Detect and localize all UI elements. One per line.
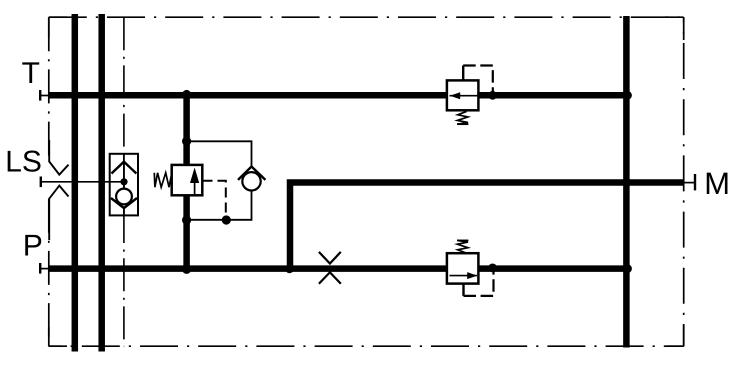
spring of RV2 (457, 240, 468, 253)
node: T / middle branch junction (182, 90, 191, 99)
port P label (25, 235, 41, 256)
wire M line (290, 183, 684, 270)
node: collector / middle branch junction (182, 215, 191, 224)
wire P gallery (49, 265, 629, 272)
relief valve RV1 (on T gallery) (447, 80, 479, 110)
node: RV2 pilot / P junction (488, 264, 497, 273)
wire CV2 to pilot collector (187, 191, 252, 220)
wire T gallery (49, 92, 629, 99)
port M label (707, 173, 728, 194)
port M marker (684, 174, 695, 190)
gallery vertical line 1 (72, 14, 79, 352)
manifold boundary bottom (49, 345, 684, 347)
spring of RV1 (457, 111, 468, 124)
gallery vertical line right (drain) (623, 16, 630, 348)
node: T / right gallery junction (623, 91, 632, 100)
node: P / M-drop junction (285, 264, 294, 273)
port T label (22, 62, 39, 83)
wire middle branch vertical (T to P through PRV1) (183, 95, 190, 268)
node: P / right gallery junction (623, 264, 632, 273)
node: collector / PRV1 pilot junction (222, 215, 231, 224)
port P marker (40, 263, 49, 274)
node: RV1 pilot / T junction (488, 91, 497, 100)
pilot line of PRV1 (dashed) (203, 181, 226, 219)
check valve CV2 (ball and seat) (238, 167, 265, 191)
pressure reducing valve PRV1 (172, 165, 203, 195)
pilot line of RV2 (462, 284, 464, 296)
port LS label (8, 151, 41, 172)
spring of PRV1 (154, 173, 172, 187)
port T marker (40, 90, 49, 101)
orifice OR1 on LS at boundary (49, 140, 68, 240)
manifold boundary right (683, 17, 685, 346)
gallery vertical line 2 (98, 14, 105, 352)
cavity centerline (dash-dot vertical through CV1) (123, 17, 125, 346)
orifice OR2 on P gallery (319, 252, 341, 284)
node: middle branch / CV2 branch junction (182, 137, 191, 146)
node: P / middle branch junction (182, 265, 191, 274)
check valve CV1 (ball in cavity rectangle on LS line) (110, 154, 138, 216)
wire CV2 branch (187, 141, 252, 166)
manifold boundary left (interrupted at LS orifice) (48, 17, 50, 161)
port LS marker (41, 177, 124, 188)
relief valve RV2 (on P gallery) (447, 253, 479, 283)
boundary corner accents (49, 17, 684, 346)
pilot line of RV1 (462, 66, 464, 81)
manifold boundary top (49, 16, 684, 18)
